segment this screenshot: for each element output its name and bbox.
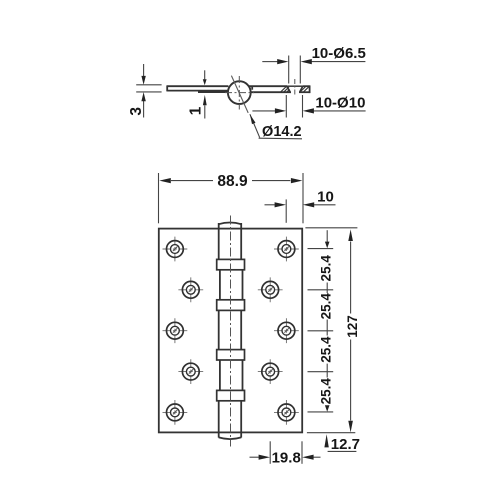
dimension 10 (top right) (265, 199, 336, 222)
knuckle collar 1 (217, 259, 245, 269)
svg-text:19.8: 19.8 (272, 449, 301, 466)
svg-text:10: 10 (317, 188, 334, 205)
knuckle barrel (219, 223, 243, 440)
leaf left (side view bar) (167, 85, 228, 91)
svg-text:25.4: 25.4 (318, 378, 333, 405)
svg-text:127: 127 (345, 315, 360, 338)
knuckle centerline (230, 216, 232, 447)
svg-text:12.7: 12.7 (331, 436, 360, 453)
screw hole L4 (178, 359, 203, 384)
dimension 10-Ø6.5 (262, 56, 365, 84)
countersunk hole section (right leaf) (287, 85, 303, 87)
diagonal construction line through circle (231, 76, 248, 113)
hole centerline (294, 79, 296, 96)
hatching right of hole (300, 87, 308, 92)
screw hole L2 (178, 277, 203, 302)
dimension 12.7 (bottom right) (324, 434, 328, 447)
svg-text:Ø14.2: Ø14.2 (262, 124, 302, 140)
svg-text:25.4: 25.4 (318, 293, 333, 320)
svg-text:88.9: 88.9 (217, 173, 248, 190)
svg-text:3: 3 (128, 107, 145, 116)
circle centerline vertical (238, 76, 240, 110)
svg-text:10-Ø6.5: 10-Ø6.5 (312, 45, 366, 62)
screw hole L5 (163, 400, 188, 425)
dimension 1 (leaf offset) (204, 70, 206, 118)
screw hole R3 (274, 318, 299, 343)
hinge plate outline (159, 229, 302, 433)
hatching left of hole (281, 87, 290, 92)
screw hole R2 (258, 277, 283, 302)
svg-text:25.4: 25.4 (318, 255, 333, 282)
svg-text:25.4: 25.4 (318, 336, 333, 363)
dimension chain 25.4 x4 (308, 230, 334, 412)
knuckle collar 4 (217, 390, 245, 400)
knuckle circle (side view) (228, 81, 251, 104)
leaf right (side view bar, 1mm lower) (198, 85, 310, 93)
svg-text:1: 1 (188, 106, 205, 115)
dimension 88.9 (159, 173, 304, 223)
screw hole L1 (163, 237, 188, 262)
dimension 19.8 (bottom) (250, 441, 321, 464)
dimension 3 (leaf thickness) (136, 64, 161, 118)
svg-text:10-Ø10: 10-Ø10 (315, 94, 365, 111)
dimension 10-Ø10 (252, 95, 365, 118)
screw hole L3 (163, 318, 188, 343)
screw hole R4 (258, 359, 283, 384)
knuckle collar 3 (217, 350, 245, 360)
screw hole R5 (274, 400, 299, 425)
leader Ø14.2 (250, 114, 260, 137)
dimension 127 (right overall) (305, 228, 357, 433)
screw hole R1 (274, 237, 299, 262)
circle centerline horizontal (225, 92, 254, 94)
knuckle collar 2 (217, 300, 245, 311)
